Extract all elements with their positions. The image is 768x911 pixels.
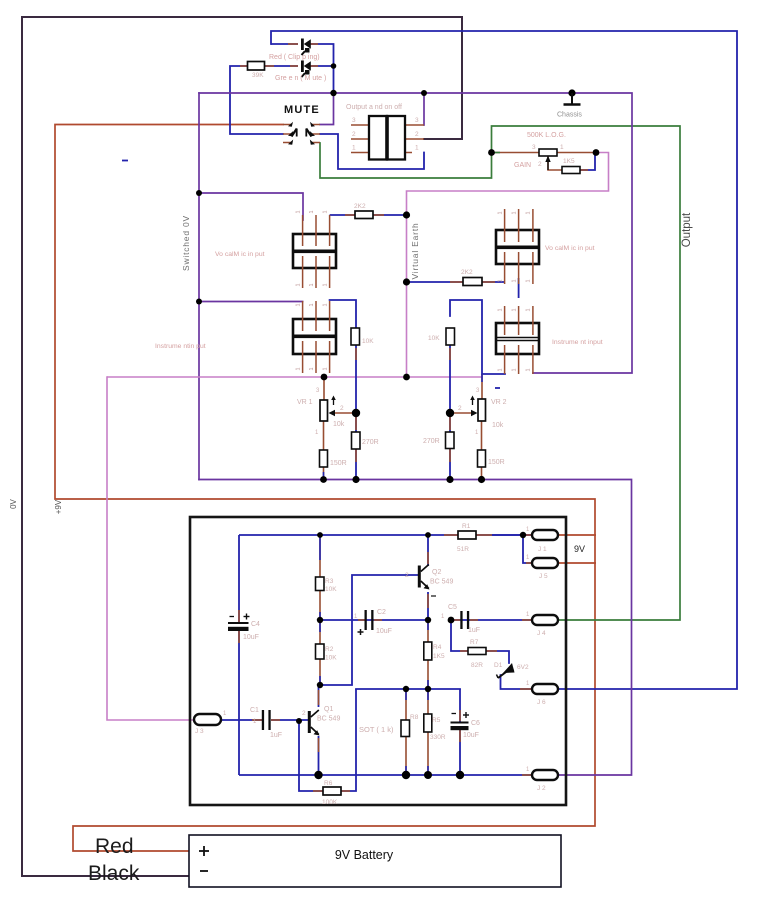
svg-text:10K: 10K <box>325 586 337 593</box>
jack socket Instrument input left <box>293 319 336 354</box>
wire J1 node down to J5 <box>523 535 532 563</box>
wire gain pot pin3 <box>492 152 540 154</box>
capacitor C2 10uF <box>365 610 367 630</box>
wire J1 to 9V rail <box>558 534 596 536</box>
svg-text:39K: 39K <box>252 72 264 79</box>
resistor R7 82R <box>468 648 486 655</box>
resistor R4 1K5 <box>424 642 432 660</box>
wire instrument jack1 pin3 to 10K <box>330 300 356 328</box>
potentiometer GAIN 500K LOG <box>539 149 557 156</box>
svg-text:82R: 82R <box>471 662 483 669</box>
svg-text:1K5: 1K5 <box>433 653 445 660</box>
svg-text:C6: C6 <box>471 720 480 727</box>
ground Chassis <box>568 89 575 96</box>
svg-text:1: 1 <box>512 279 518 282</box>
svg-text:3: 3 <box>415 117 419 124</box>
resistor 2K2 (vocal 1) <box>355 211 373 219</box>
svg-text:R6: R6 <box>324 780 333 787</box>
wire 39K to LED2 anode <box>265 65 299 67</box>
stray blue dash 2 <box>495 387 500 389</box>
svg-text:2: 2 <box>340 405 344 412</box>
capacitor C1 1uF <box>262 710 264 730</box>
wire SOT chain <box>405 689 407 775</box>
resistor 10K (left channel) <box>351 328 360 345</box>
LED D (Red Clipping) <box>301 39 304 51</box>
svg-text:500K L.O.G.: 500K L.O.G. <box>527 132 566 139</box>
wire R7 to D1 <box>486 651 509 663</box>
svg-text:J 4: J 4 <box>537 630 546 637</box>
svg-text:BC 549: BC 549 <box>430 579 453 586</box>
wire vocal jack2 pin2 to instrument jack2 pin2 <box>518 278 520 298</box>
wire 2K2 to virtual earth <box>373 214 407 216</box>
svg-text:Q2: Q2 <box>432 569 441 576</box>
wire purple to vocal jack1 pin1 <box>199 193 303 220</box>
wire VR1 pin3 to virtual earth bus <box>323 377 325 400</box>
svg-text:1: 1 <box>512 308 518 311</box>
connector J5 <box>532 558 558 568</box>
wire 10K2 to VR2 wiper <box>449 345 451 413</box>
battery 9V box <box>189 835 561 887</box>
svg-text:2: 2 <box>405 572 409 579</box>
wire 1K5 to pink loop <box>580 153 595 171</box>
potentiometer VR2 10k <box>478 399 486 421</box>
svg-text:1: 1 <box>296 283 302 286</box>
wire instrument jack2 VR2 pin3 drop <box>481 374 483 399</box>
diode D1 zener 6V2 <box>503 663 515 673</box>
svg-text:10k: 10k <box>492 422 504 429</box>
stray blue dash <box>122 160 128 162</box>
wire Q1 collector <box>318 685 320 707</box>
stray dash Q2 emitter <box>431 595 436 597</box>
svg-text:10k: 10k <box>333 421 345 428</box>
svg-text:1: 1 <box>526 308 532 311</box>
svg-text:1: 1 <box>415 145 419 152</box>
trimmer SOT 1k <box>401 720 410 737</box>
svg-text:C4: C4 <box>251 621 260 628</box>
wire R1 right to J1 <box>492 534 532 536</box>
resistor 39K <box>248 62 265 71</box>
resistor R6 100K <box>323 787 341 795</box>
svg-text:1: 1 <box>296 210 302 213</box>
svg-text:R8: R8 <box>410 714 419 721</box>
svg-text:R4: R4 <box>433 644 442 651</box>
svg-text:1: 1 <box>560 144 564 151</box>
junction dots <box>331 63 337 69</box>
wire pink virtual earth bus <box>107 376 482 378</box>
svg-text:Red ( Clip p ing): Red ( Clip p ing) <box>269 54 320 61</box>
transistor Q1 BC549 <box>308 711 311 733</box>
wire VR2 pin1 via 150R to 0V bus <box>481 421 483 450</box>
wire D1 to J6 <box>501 675 533 689</box>
svg-text:10uF: 10uF <box>463 732 479 739</box>
svg-text:Black: Black <box>88 862 140 885</box>
svg-text:1uF: 1uF <box>270 732 282 739</box>
svg-text:2: 2 <box>302 710 306 717</box>
svg-text:270R: 270R <box>423 438 440 445</box>
resistor 150R (right) <box>478 450 486 467</box>
resistor 270R (left) <box>352 432 361 449</box>
wire instrument jack2 pin3/pin1 blue loop via 10K <box>450 300 505 374</box>
svg-text:R5: R5 <box>432 717 441 724</box>
jack socket Vocal/Mic input right <box>496 230 539 264</box>
svg-text:Instrume ntin put: Instrume ntin put <box>155 343 206 350</box>
wire LED2 cathode to junction <box>310 65 334 67</box>
wire amp 9V rail <box>239 534 532 536</box>
svg-text:1: 1 <box>526 211 532 214</box>
svg-text:MUTE: MUTE <box>284 104 320 116</box>
wire purple top bus y93 to instrument jack sleeve <box>199 93 632 373</box>
jack socket Instrument input right <box>496 323 539 354</box>
resistor 270R (right) <box>446 432 455 449</box>
svg-text:1: 1 <box>498 211 504 214</box>
connector J3 <box>194 714 221 725</box>
wire 10K to VR1 wiper <box>355 345 357 413</box>
wire to LED1 anode <box>271 43 298 45</box>
svg-text:Vo calM ic in put: Vo calM ic in put <box>545 245 595 252</box>
wire amp bottom 0V rail <box>239 774 532 776</box>
wire purple to instrument jack1 pin1 <box>199 301 303 303</box>
svg-text:J 2: J 2 <box>537 785 546 792</box>
wire MUTE pole2 mid to output switch pin1 <box>320 134 424 169</box>
svg-text:1: 1 <box>498 279 504 282</box>
wire J3 to C1 <box>221 719 263 721</box>
svg-text:10K: 10K <box>325 655 337 662</box>
svg-text:+9V: +9V <box>54 499 63 514</box>
svg-text:J 6: J 6 <box>537 699 546 706</box>
svg-text:J 1: J 1 <box>538 546 547 553</box>
transistor Q2 BC549 <box>418 566 421 588</box>
connector J4 <box>532 615 558 625</box>
svg-text:1K5: 1K5 <box>563 158 575 165</box>
svg-text:10K: 10K <box>362 338 374 345</box>
wire VR2 wiper via 270R to 0V bus <box>449 413 451 480</box>
wire emitter mid rail <box>356 688 460 690</box>
capacitor C6 10uF electrolytic <box>451 722 469 724</box>
svg-text:Gre e n ( M ute ): Gre e n ( M ute ) <box>275 75 326 82</box>
svg-text:1: 1 <box>323 303 329 306</box>
wire green mute net: MUTE pole2 bottom to gain pot and J4 output <box>320 126 680 620</box>
wire VR1 wiper via 270R to 0V bus <box>355 413 357 480</box>
svg-text:J 5: J 5 <box>539 573 548 580</box>
svg-text:10K: 10K <box>428 335 440 342</box>
wire Q1 base to R6 left <box>299 721 323 791</box>
resistor R1 51R <box>458 531 476 539</box>
wire pink virtual earth to J3 input <box>107 377 194 720</box>
svg-text:R3: R3 <box>325 578 334 585</box>
svg-text:1: 1 <box>309 283 315 286</box>
svg-text:SOT ( 1 k): SOT ( 1 k) <box>359 725 394 734</box>
svg-text:1: 1 <box>309 367 315 370</box>
svg-text:9V: 9V <box>574 544 585 554</box>
switch MUTE pole1 <box>283 124 291 126</box>
svg-text:100K: 100K <box>322 799 338 806</box>
svg-text:VR 1: VR 1 <box>297 399 313 406</box>
svg-text:1: 1 <box>296 367 302 370</box>
svg-text:1: 1 <box>526 368 532 371</box>
resistor 2K2 (vocal 2) <box>463 278 482 286</box>
wire vocal jack1 pin3 to 2K2 <box>330 214 355 216</box>
wire purple switched 0V vertical <box>198 93 200 480</box>
wire C1 to Q1 base <box>271 719 308 721</box>
svg-text:2: 2 <box>458 405 462 412</box>
wire R7 branch <box>451 620 468 651</box>
svg-text:150R: 150R <box>330 460 347 467</box>
resistor 150R (left) <box>320 450 328 467</box>
svg-text:GAIN: GAIN <box>514 162 531 169</box>
resistor R5 330R <box>424 714 432 732</box>
connector J1 <box>532 530 558 540</box>
svg-text:1: 1 <box>512 368 518 371</box>
svg-text:1: 1 <box>352 145 356 152</box>
wire VR1 pin1 via 150R to 0V bus <box>323 421 325 450</box>
svg-text:R1: R1 <box>462 523 471 530</box>
svg-text:2: 2 <box>415 131 419 138</box>
wire Q2 emitter to C2 node <box>427 592 429 620</box>
svg-text:51R: 51R <box>457 546 469 553</box>
svg-text:C1: C1 <box>250 707 259 714</box>
wire 2K2b to vocal jack2 pin1 <box>482 281 505 283</box>
wire blue J6 output loop (top rail, right border) <box>271 31 737 689</box>
svg-text:C5: C5 <box>448 604 457 611</box>
wire Q2 collector <box>427 535 429 566</box>
svg-text:Output a nd on off: Output a nd on off <box>346 104 402 111</box>
wire Q1 emitter <box>318 736 320 775</box>
svg-text:D1: D1 <box>494 662 503 669</box>
resistor R2 10K <box>316 644 325 659</box>
svg-text:C2: C2 <box>377 609 386 616</box>
wire gain pot pin1 <box>557 152 596 154</box>
svg-text:1uF: 1uF <box>468 627 480 634</box>
amplifier module box <box>190 517 566 805</box>
svg-text:1: 1 <box>323 283 329 286</box>
resistor 1K5 <box>562 167 580 174</box>
svg-text:J 3: J 3 <box>195 728 204 735</box>
svg-text:1: 1 <box>498 368 504 371</box>
svg-text:Output: Output <box>681 212 693 247</box>
svg-text:Q1: Q1 <box>324 706 333 713</box>
capacitor C4 10uF electrolytic <box>228 622 249 624</box>
svg-text:Red: Red <box>95 835 134 858</box>
wire pink gain-pot loop <box>407 153 609 216</box>
wire LED1 cathode to junction <box>310 44 334 93</box>
wire 39K left to MUTE pole1 common <box>230 66 283 134</box>
svg-text:270R: 270R <box>362 439 379 446</box>
svg-text:R7: R7 <box>470 639 479 646</box>
jack socket Vocal/Mic input left <box>293 234 336 268</box>
wire mid rail left drop <box>355 689 357 775</box>
svg-text:BC 549: BC 549 <box>317 716 340 723</box>
wire 0V left border to battery minus <box>22 17 189 876</box>
svg-text:150R: 150R <box>488 459 505 466</box>
resistor R3 10K <box>316 577 325 591</box>
wire C2 row <box>320 619 428 621</box>
svg-text:1: 1 <box>323 367 329 370</box>
svg-text:Switched 0V: Switched 0V <box>181 215 191 271</box>
svg-text:2: 2 <box>538 161 542 168</box>
svg-text:1: 1 <box>309 210 315 213</box>
wire R5 chain <box>427 689 429 775</box>
svg-text:R2: R2 <box>325 646 334 653</box>
svg-text:2K2: 2K2 <box>354 203 366 210</box>
svg-text:1: 1 <box>498 308 504 311</box>
svg-text:330R: 330R <box>430 734 446 741</box>
svg-text:0V: 0V <box>9 498 18 508</box>
wire C4 branch <box>238 535 240 622</box>
wire R4 chain <box>427 620 429 689</box>
svg-text:VR 2: VR 2 <box>491 399 507 406</box>
svg-text:1: 1 <box>526 279 532 282</box>
connector J2 <box>532 770 558 780</box>
svg-text:2K2: 2K2 <box>461 269 473 276</box>
svg-text:1: 1 <box>296 303 302 306</box>
wire C6 branch <box>459 689 461 722</box>
potentiometer VR1 10k <box>320 400 328 421</box>
wire MUTE pole2 top contact to purple bus <box>320 93 334 125</box>
svg-text:10uF: 10uF <box>376 628 392 635</box>
wire Q1 collector to Q2 base <box>320 575 418 685</box>
wire R2 chain <box>319 620 321 685</box>
wire C5 row to J4 <box>451 619 532 621</box>
svg-text:1: 1 <box>512 211 518 214</box>
svg-text:1: 1 <box>323 210 329 213</box>
resistor 10K (right channel) <box>446 328 455 345</box>
wire gain pot wiper to 1K5 <box>548 156 562 170</box>
LED D (Green Mute) <box>301 61 304 73</box>
svg-text:6V2: 6V2 <box>517 664 529 671</box>
svg-text:Chassis: Chassis <box>557 112 582 119</box>
wire 0V top rail to output switch pin2 <box>22 17 462 139</box>
wire +9V red from MUTE down and around to battery plus <box>55 125 595 852</box>
wire virtual earth to 2K2b <box>407 281 464 283</box>
svg-text:Instrume nt input: Instrume nt input <box>552 339 603 346</box>
wire R3 chain <box>319 535 321 620</box>
connector J6 <box>532 684 558 694</box>
wire output switch pin3 to purple bus <box>423 93 425 125</box>
svg-text:9V Battery: 9V Battery <box>335 848 394 862</box>
svg-text:3: 3 <box>352 117 356 124</box>
svg-text:1: 1 <box>309 303 315 306</box>
switch MUTE pole2 <box>312 124 320 126</box>
svg-text:3: 3 <box>532 144 536 151</box>
switch Output on and off (DPDT slide) <box>351 124 369 126</box>
svg-text:10uF: 10uF <box>243 634 259 641</box>
wire pink virtual earth vertical <box>406 215 408 377</box>
capacitor C5 1uF <box>460 611 462 629</box>
wire J5 to 9V rail <box>558 562 596 564</box>
svg-text:Vo calM ic in put: Vo calM ic in put <box>215 251 265 258</box>
wire R6 right to 0V rail <box>341 775 356 791</box>
svg-text:Virtual Earth: Virtual Earth <box>410 222 420 279</box>
svg-text:2: 2 <box>352 131 356 138</box>
wire purple bottom 0V bus to J2 <box>199 480 632 776</box>
